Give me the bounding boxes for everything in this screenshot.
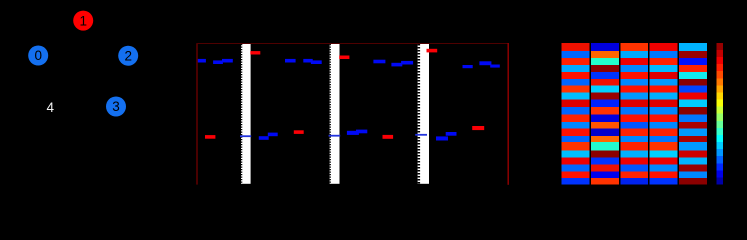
svg-text:1: 1 — [79, 13, 87, 28]
heatmap (20 rows x 5 cols) — [562, 43, 708, 185]
blue dashed level segment 9 — [401, 61, 413, 65]
white bar 2 (dotted left edge) — [330, 44, 340, 184]
white bar 3 (dotted left edge) — [418, 44, 429, 184]
red energy marker 6 — [383, 135, 394, 139]
red energy marker 1 — [250, 51, 260, 54]
svg-text:0: 0 — [34, 48, 42, 63]
blue dashed level segment 14 — [268, 133, 278, 137]
svg-text:4: 4 — [46, 100, 54, 115]
red energy marker 4 — [205, 135, 215, 139]
thin blue level line through bar 1 — [240, 135, 251, 137]
blue dashed level segment 11 — [479, 61, 491, 65]
thin blue level line through bar 2 — [329, 135, 341, 137]
svg-text:3: 3 — [112, 99, 120, 114]
blue dashed level segment 13 — [259, 136, 269, 140]
blue dashed level segment 5 — [303, 59, 312, 63]
colorbar (jet) — [716, 43, 723, 185]
blue dashed level segment 16 — [356, 130, 367, 134]
blue dashed level segment 3 — [222, 59, 233, 63]
blue dashed level segment 17 — [436, 136, 448, 140]
node 1 (red) — [73, 11, 93, 31]
plot left spine — [196, 43, 197, 185]
red energy marker 5 — [294, 130, 304, 134]
plot right spine — [508, 43, 509, 185]
node 3 (blue) — [106, 97, 126, 117]
red energy marker 2 — [339, 56, 349, 60]
node 2 (blue) — [118, 46, 138, 66]
blue dashed level segment 12 — [490, 65, 500, 68]
svg-text:2: 2 — [124, 48, 132, 63]
red energy marker 3 — [427, 49, 438, 53]
blue dashed level segment 2 — [213, 60, 223, 64]
blue dashed level segment 7 — [373, 60, 385, 64]
red energy marker 7 — [472, 126, 484, 130]
white bar 1 (dotted left edge) — [241, 44, 251, 184]
blue dashed level segment 8 — [391, 63, 402, 67]
thin blue level line through bar 3 — [415, 134, 427, 136]
blue dashed level segment 10 — [463, 65, 473, 68]
blue dashed level segment 15 — [347, 131, 359, 135]
blue dashed level segment 6 — [311, 60, 322, 64]
node 4 (black node, white label) — [40, 98, 60, 118]
node 0 (blue) — [28, 46, 48, 66]
blue dashed level segment 18 — [446, 132, 457, 136]
blue dashed level segment 4 — [285, 59, 296, 63]
plot top spine — [196, 43, 508, 44]
blue dashed level segment 1 — [198, 59, 206, 63]
